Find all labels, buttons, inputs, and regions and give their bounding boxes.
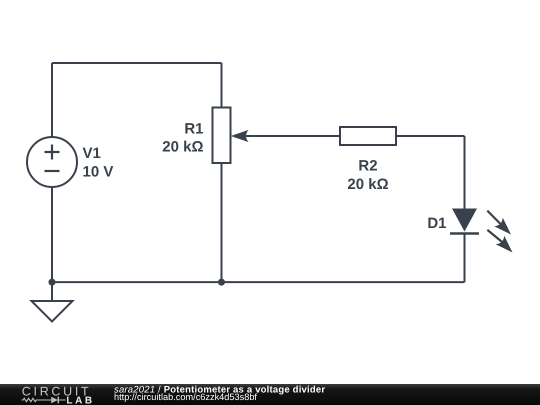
wire: [51, 63, 53, 137]
footer title text: [114, 384, 325, 402]
LED D1 light arrow 2: [487, 230, 512, 253]
ground: [32, 301, 73, 322]
label R2 20 kΩ: [347, 158, 388, 193]
wire: [52, 281, 465, 283]
svg-text:http://circuitlab.com/c6zzk4d5: http://circuitlab.com/c6zzk4d53s8bf: [114, 392, 257, 402]
footer bar: [0, 384, 540, 405]
potentiometer R1: [213, 108, 231, 164]
svg-text:20 kΩ: 20 kΩ: [162, 138, 203, 155]
label R1 20 kΩ: [162, 121, 203, 156]
wire: [52, 62, 222, 64]
wire: [464, 234, 466, 283]
wire: [240, 135, 340, 137]
LED D1: [450, 209, 479, 234]
wiper arrow of R1: [231, 130, 249, 142]
LED D1 light arrow 1: [487, 211, 511, 235]
CircuitLab logo: [22, 385, 95, 405]
wire: [51, 187, 53, 282]
resistor R2: [340, 127, 396, 145]
node junction left: [49, 279, 56, 286]
label V1 10 V: [83, 145, 114, 181]
wire: [396, 135, 465, 137]
wire: [221, 163, 223, 282]
wire: [464, 136, 466, 209]
svg-text:V1: V1: [83, 145, 101, 162]
node junction middle: [218, 279, 225, 286]
svg-text:LAB: LAB: [66, 396, 94, 405]
svg-text:20 kΩ: 20 kΩ: [347, 176, 388, 193]
wire: [51, 282, 53, 301]
wire: [221, 63, 223, 108]
svg-text:D1: D1: [427, 215, 446, 232]
svg-text:R2: R2: [358, 158, 377, 175]
label D1: [427, 215, 446, 232]
svg-text:10 V: 10 V: [83, 164, 114, 181]
svg-text:R1: R1: [184, 121, 203, 138]
voltage source V1: [27, 137, 77, 187]
